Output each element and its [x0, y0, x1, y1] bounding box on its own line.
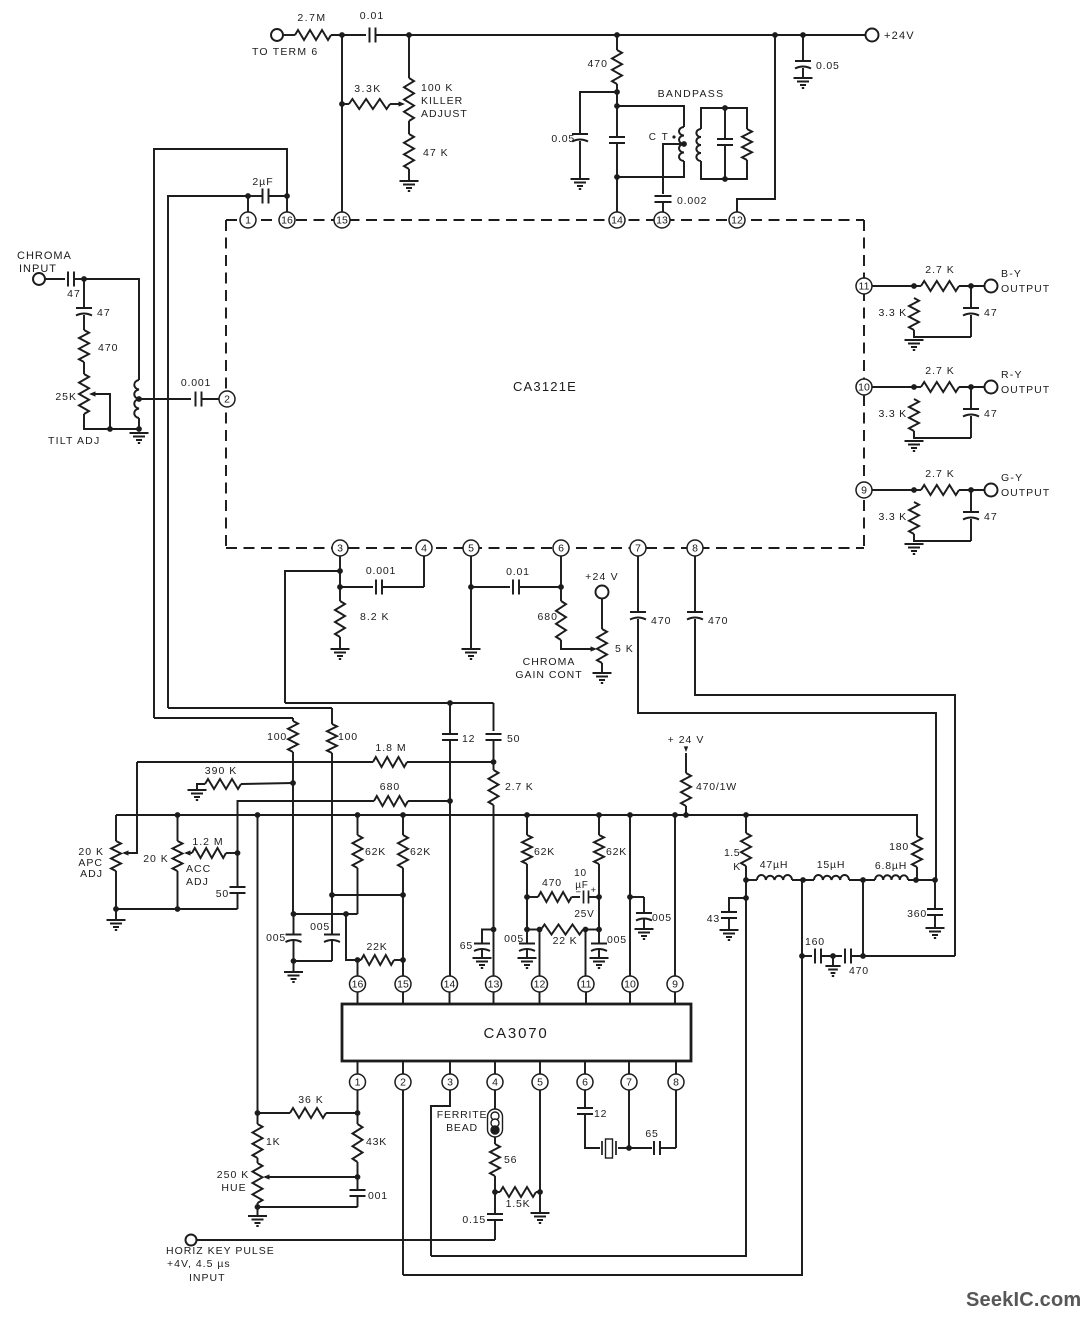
wire — [934, 915, 936, 928]
svg-text:100: 100 — [267, 731, 287, 743]
ground — [518, 958, 537, 968]
wire feedback B — [168, 196, 248, 708]
capacitor 47 input — [68, 272, 74, 287]
wire — [493, 740, 495, 762]
resistor 2.7K B-Y — [921, 281, 959, 291]
junction — [537, 927, 543, 933]
svg-text:11: 11 — [859, 281, 870, 293]
wire — [84, 414, 139, 429]
junction — [284, 193, 290, 199]
svg-text:470: 470 — [708, 615, 729, 627]
ground — [593, 673, 612, 683]
resistor 180 — [912, 836, 922, 867]
svg-text:360: 360 — [907, 908, 927, 920]
wire — [970, 286, 972, 307]
capacitor 65 pin13 — [474, 944, 490, 952]
wire pin7 drop — [628, 1090, 630, 1148]
svg-text:1.2 M: 1.2 M — [192, 836, 223, 848]
bus junction — [672, 812, 678, 818]
ground — [905, 544, 924, 554]
CA3070 pin 8 — [668, 1074, 684, 1090]
label 250K — [217, 1169, 249, 1181]
svg-text:1.5: 1.5 — [724, 847, 740, 859]
label APC — [78, 857, 103, 869]
CA3070 pin 4 — [487, 1074, 503, 1090]
label 1.5 — [724, 847, 740, 859]
svg-text:15: 15 — [336, 215, 348, 227]
capacitor 360 — [927, 909, 943, 915]
svg-text:160: 160 — [805, 936, 825, 948]
ground small — [825, 966, 840, 976]
wire ground rail — [116, 908, 238, 910]
capacitor 0.01 — [370, 28, 376, 43]
ground — [905, 340, 924, 350]
wire pin15 chain — [402, 868, 404, 976]
terminal R-Y output — [985, 381, 998, 394]
svg-text:G-Y: G-Y — [1001, 472, 1023, 484]
wire — [241, 783, 293, 784]
svg-text:2: 2 — [400, 1077, 406, 1089]
label +4V 4.5us — [167, 1258, 231, 1270]
wire — [629, 1147, 652, 1149]
svg-text:50: 50 — [216, 888, 229, 900]
junction — [800, 877, 806, 883]
resistor 2.7K G-Y — [921, 485, 959, 495]
svg-text:005: 005 — [504, 933, 524, 945]
capacitor 0.05 bandpass — [572, 134, 588, 142]
label TILT ADJ — [48, 435, 100, 447]
wire — [970, 519, 972, 541]
wire pin2 drop — [402, 1090, 404, 1275]
junction — [337, 568, 343, 574]
svg-text:15: 15 — [397, 979, 409, 991]
wire — [449, 740, 451, 801]
svg-text:005: 005 — [652, 912, 672, 924]
svg-text:C T: C T — [649, 132, 669, 143]
ferrite bead — [488, 1109, 503, 1137]
CT bullet — [672, 135, 675, 138]
wire stub 65 — [449, 928, 451, 930]
capacitor 50 — [486, 734, 502, 740]
label GAIN CONT — [515, 669, 582, 681]
label 47 — [67, 288, 81, 300]
pin 11 — [856, 278, 872, 294]
capacitor 47 G-Y — [963, 512, 979, 520]
potentiometer 20K APC — [111, 841, 121, 871]
wiper arrow hue — [263, 1174, 270, 1179]
CA3070 pin 10 — [622, 976, 638, 992]
label 2.7K R-Y — [925, 365, 955, 377]
CA3070 pin 5 — [532, 1074, 548, 1090]
svg-text:62K: 62K — [534, 846, 555, 858]
wire — [394, 959, 403, 961]
ground — [794, 78, 813, 88]
bus junction — [255, 812, 261, 818]
svg-text:SeekIC.com: SeekIC.com — [966, 1289, 1081, 1311]
svg-text:0.05: 0.05 — [816, 60, 840, 72]
pin 15 — [334, 212, 350, 228]
resistor 470 mid — [538, 892, 572, 902]
wire pin1 drop — [357, 1090, 359, 1124]
bus line — [116, 815, 917, 836]
label 10 — [574, 868, 587, 879]
svg-text:12: 12 — [534, 979, 546, 991]
junction — [337, 584, 343, 590]
junction — [800, 32, 806, 38]
junction — [290, 780, 296, 786]
label 470 — [849, 965, 869, 977]
label 470 — [98, 342, 119, 354]
wire — [331, 708, 333, 724]
svg-text:2µF: 2µF — [252, 176, 273, 188]
ground — [400, 181, 419, 191]
wire — [494, 1137, 496, 1144]
capacitor .001 hue — [350, 1190, 366, 1196]
wiper arrow ACC — [184, 850, 191, 855]
wire pin3 drop — [431, 1090, 450, 1256]
bus junction — [524, 812, 530, 818]
wire — [177, 871, 179, 909]
resistor 680 — [556, 601, 566, 640]
wire pin to B-Y node — [872, 285, 914, 287]
wire — [331, 34, 366, 36]
wire — [269, 195, 287, 197]
junction — [81, 276, 87, 282]
wire — [408, 800, 450, 802]
ground — [188, 790, 207, 800]
label 0.002 — [677, 195, 707, 207]
wire APC wiper riser — [124, 762, 137, 853]
IC CA3121E bottom edge — [226, 547, 864, 549]
svg-text:25K: 25K — [55, 391, 77, 403]
svg-text:2: 2 — [224, 394, 230, 406]
wire — [402, 815, 404, 835]
wire — [643, 920, 645, 930]
svg-text:1.8 M: 1.8 M — [375, 742, 406, 754]
junction — [492, 1189, 498, 1195]
bus junction — [743, 812, 749, 818]
wire — [821, 955, 842, 957]
label 390K — [205, 765, 237, 777]
resistor 56 — [490, 1144, 500, 1176]
label 2.7K — [505, 781, 534, 793]
wire — [527, 896, 538, 898]
resistor 36K — [290, 1108, 326, 1118]
ground — [107, 920, 126, 930]
junction — [447, 798, 453, 804]
pin 9 — [856, 482, 872, 498]
label BEAD — [446, 1122, 478, 1134]
wire — [283, 34, 295, 36]
wire feedback A — [154, 149, 287, 718]
svg-text:7: 7 — [626, 1077, 632, 1089]
resistor 2.7K R-Y — [921, 382, 959, 392]
label 15uH — [817, 859, 846, 871]
capacitor 10uF — [584, 891, 589, 904]
svg-text:10: 10 — [574, 868, 587, 879]
svg-text:9: 9 — [861, 485, 867, 497]
ground — [590, 958, 609, 968]
wire pin5 drop — [539, 1090, 541, 1213]
wire — [585, 1114, 600, 1148]
svg-text:20 K: 20 K — [143, 853, 169, 865]
svg-text:3.3 K: 3.3 K — [878, 408, 907, 420]
label 5K — [615, 643, 634, 655]
ground — [462, 649, 481, 659]
label 2.7K G-Y — [925, 468, 955, 480]
wire — [357, 1196, 359, 1207]
wire — [495, 1191, 500, 1193]
wire — [701, 108, 747, 129]
wire — [237, 853, 239, 886]
potentiometer 20K ACC — [173, 841, 183, 871]
svg-text:+4V, 4.5 µs: +4V, 4.5 µs — [167, 1258, 231, 1270]
wire — [862, 880, 864, 956]
svg-text:µF: µF — [575, 880, 588, 891]
CA3070 pin 12 — [532, 976, 548, 992]
wire — [685, 753, 687, 773]
svg-text:47: 47 — [67, 288, 81, 300]
pin 4 — [416, 540, 432, 556]
wire — [390, 103, 400, 105]
svg-text:470: 470 — [98, 342, 119, 354]
svg-text:470/1W: 470/1W — [696, 781, 737, 793]
wire jog — [346, 914, 358, 960]
junction — [537, 1189, 543, 1195]
label 1.5K — [506, 1198, 531, 1210]
wire — [493, 703, 495, 731]
wire — [481, 950, 483, 958]
pin 16 — [279, 212, 295, 228]
wire — [494, 1220, 496, 1240]
label minus — [575, 887, 581, 898]
wire — [331, 895, 333, 935]
inductor bandpass secondary — [696, 129, 701, 161]
wiper arrow chroma gain — [591, 646, 598, 651]
svg-text:3: 3 — [337, 543, 343, 555]
wire — [616, 84, 618, 106]
junction — [245, 193, 251, 199]
wire — [526, 815, 528, 835]
wire +24V rail — [376, 34, 867, 36]
label HORIZ KEY PULSE — [166, 1245, 275, 1257]
junction — [614, 32, 620, 38]
label 62K — [534, 846, 555, 858]
wire — [237, 893, 239, 909]
label 005 — [652, 912, 672, 924]
wire — [583, 929, 599, 931]
CA3070 pin 1 — [350, 1074, 366, 1090]
wire — [643, 897, 645, 913]
IC CA3070 box — [342, 1004, 691, 1061]
junction — [614, 174, 620, 180]
wire — [74, 278, 84, 280]
bus junction — [175, 812, 181, 818]
svg-text:36 K: 36 K — [298, 1094, 324, 1106]
wire — [970, 416, 972, 438]
CA3070 pin 11 — [578, 976, 594, 992]
capacitor 0.05 B — [324, 935, 340, 943]
label +24V — [668, 734, 705, 746]
label 65 — [460, 940, 473, 952]
wire — [970, 490, 972, 511]
svg-text:62K: 62K — [365, 846, 386, 858]
resistor 1.8M — [373, 757, 407, 767]
label 6.8uH — [875, 860, 907, 872]
label uF — [575, 880, 588, 891]
wire pin5 drop — [470, 556, 472, 649]
wire — [851, 955, 955, 957]
wire — [294, 913, 358, 915]
wire pin12 riser — [737, 35, 775, 212]
junction — [406, 32, 412, 38]
resistor 62K pin12 chain — [522, 835, 532, 864]
svg-text:47: 47 — [984, 408, 998, 420]
svg-text:16: 16 — [281, 215, 293, 227]
CA3070 pin 16 — [350, 976, 366, 992]
capacitor 65 crystal — [654, 1141, 660, 1155]
label 22K — [366, 941, 387, 953]
svg-text:1K: 1K — [266, 1136, 280, 1148]
pin 1 — [240, 212, 256, 228]
wire pin to R-Y node — [872, 386, 914, 388]
terminal TO TERM 6 — [271, 29, 283, 41]
label R-Y — [1001, 369, 1023, 381]
wire — [84, 279, 139, 380]
wire — [662, 202, 664, 212]
junction — [447, 700, 453, 706]
resistor 47K — [404, 134, 414, 169]
wire pin16 chain — [357, 868, 359, 914]
resistor 1K — [253, 1124, 263, 1158]
svg-text:12: 12 — [594, 1108, 607, 1120]
potentiometer 100K killer adjust — [404, 78, 414, 121]
label CHROMA — [523, 656, 576, 668]
svg-text:TILT ADJ: TILT ADJ — [48, 435, 100, 447]
capacitor 0.001 pin2 — [196, 392, 202, 407]
wire pin 9 stub — [674, 992, 676, 1004]
label 47 — [984, 408, 998, 420]
wire pin14 chain — [449, 801, 451, 976]
wire pin 14 stub — [449, 992, 451, 1004]
wire — [618, 1147, 629, 1149]
svg-text:+ 24 V: + 24 V — [668, 734, 705, 746]
junction — [911, 384, 917, 390]
ground — [473, 958, 492, 968]
wire — [339, 637, 341, 649]
svg-text:47µH: 47µH — [760, 859, 789, 871]
resistor 1.5K bottom — [500, 1187, 536, 1197]
pin 6 — [553, 540, 569, 556]
wire — [258, 1206, 358, 1208]
IC CA3121E left edge — [225, 220, 227, 548]
terminal +24V chroma gain — [596, 586, 609, 599]
wire — [526, 930, 528, 944]
resistor 390K — [205, 779, 241, 789]
capacitor 470 pin8 — [687, 612, 703, 620]
label ADJ — [80, 868, 103, 880]
svg-text:7: 7 — [635, 543, 641, 555]
label OUTPUT — [1001, 487, 1050, 499]
label 0.05 — [551, 133, 575, 145]
svg-text:22 K: 22 K — [553, 935, 578, 947]
junction — [743, 877, 749, 883]
terminal +24V — [866, 29, 879, 42]
capacitor 0.05 A — [286, 935, 302, 943]
wire — [728, 918, 730, 930]
svg-text:6: 6 — [582, 1077, 588, 1089]
wire — [959, 386, 984, 388]
wire — [248, 195, 262, 197]
wire center tap — [663, 144, 684, 194]
svg-text:47: 47 — [984, 511, 998, 523]
label 100 — [338, 731, 358, 743]
label 005 — [504, 933, 524, 945]
wire — [746, 879, 757, 881]
resistor 1.2M — [192, 848, 226, 858]
svg-text:GAIN CONT: GAIN CONT — [515, 669, 582, 681]
junction — [932, 877, 938, 883]
junction — [255, 1204, 261, 1210]
IC label CA3121E — [513, 379, 577, 394]
label 47K — [423, 147, 449, 159]
label C T — [649, 132, 669, 143]
label 62K — [606, 846, 627, 858]
wire 0.05 stub — [580, 92, 617, 133]
ground — [926, 928, 945, 938]
label 3.3K R-Y — [878, 408, 907, 420]
svg-text:0.001: 0.001 — [366, 565, 396, 577]
resistor 3.3K B-Y — [909, 298, 919, 330]
wire 43 stub — [729, 898, 746, 911]
resistor 62K pin11 chain — [594, 835, 604, 864]
pin 3 — [332, 540, 348, 556]
wire — [138, 418, 140, 430]
wire — [616, 35, 618, 50]
svg-text:8.2 K: 8.2 K — [360, 611, 390, 623]
capacitor 47 shunt — [76, 308, 92, 316]
wire — [526, 864, 528, 930]
svg-text:10: 10 — [624, 979, 636, 991]
resistor 2.7K feedback — [489, 770, 499, 805]
label 22K — [553, 935, 578, 947]
capacitor 47 B-Y — [963, 308, 979, 316]
svg-text:CA3121E: CA3121E — [513, 379, 577, 394]
wire — [724, 108, 726, 138]
wire pin8 drop — [675, 1090, 677, 1148]
junction — [107, 426, 113, 432]
wire tank top rail — [617, 106, 684, 127]
wire — [331, 753, 333, 895]
svg-text:13: 13 — [656, 215, 668, 227]
label 12 — [594, 1108, 607, 1120]
wire — [616, 143, 618, 177]
svg-text:680: 680 — [380, 781, 401, 793]
resistor 3.3K G-Y — [909, 502, 919, 534]
label 001 — [368, 1190, 388, 1202]
label 1.2M — [192, 836, 223, 848]
label 0.01 — [360, 10, 384, 22]
wire — [540, 929, 542, 931]
wire pin7 run — [638, 619, 936, 880]
wire 1.8M line — [137, 761, 373, 763]
wiper arrow killer adjust — [399, 101, 406, 106]
label 005 — [266, 932, 286, 944]
wire — [802, 35, 804, 60]
svg-text:3.3 K: 3.3 K — [878, 511, 907, 523]
label TO TERM 6 — [252, 46, 318, 58]
capacitor bandpass primary — [609, 137, 625, 143]
